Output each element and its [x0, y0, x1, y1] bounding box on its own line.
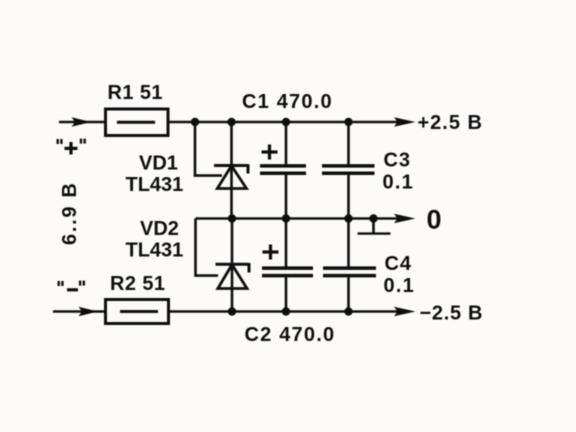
polarity + mark C1: [262, 145, 278, 160]
svg-text:VD2: VD2: [140, 218, 179, 240]
input terminal "−" arrow: [53, 307, 105, 317]
capacitor C3: [322, 122, 375, 219]
shunt regulator VD2 TL431: [216, 219, 250, 312]
svg-text:C3: C3: [384, 149, 411, 171]
node top rail / VD1 cathode junction: [227, 118, 235, 126]
wire middle rail 0: [196, 217, 399, 220]
node bottom rail / C4 junction: [344, 307, 352, 315]
svg-text:0.1: 0.1: [383, 172, 414, 194]
ground symbol: [358, 219, 391, 234]
svg-text:+2.5 В: +2.5 В: [418, 112, 483, 134]
wire top rail +2.5: [168, 121, 398, 124]
resistor R2: [106, 300, 169, 324]
capacitor C1: [260, 122, 306, 219]
node middle rail / VD junction: [228, 214, 236, 222]
arrow −2.5 output: [394, 307, 416, 317]
node middle rail / C1-C2 junction: [282, 214, 290, 222]
capacitor C2: [262, 219, 313, 312]
wire bottom rail −2.5: [169, 310, 399, 313]
svg-text:−2.5 В: −2.5 В: [420, 302, 484, 324]
arrow 0 output: [394, 214, 416, 224]
svg-text:C4: C4: [385, 253, 412, 275]
shunt regulator VD1 TL431: [214, 122, 248, 219]
capacitor C4: [323, 219, 376, 312]
wire VD1 reference: [195, 122, 222, 176]
node bottom rail / VD2 anode: [228, 307, 236, 315]
label "−" input: [58, 281, 86, 292]
resistor R1: [106, 109, 169, 136]
node middle rail / C3-C4 junction: [344, 214, 352, 222]
svg-text:R1 51: R1 51: [108, 82, 163, 104]
label "+" input: [57, 139, 86, 155]
wire VD2 reference: [196, 219, 219, 276]
arrow +2.5 output: [394, 117, 416, 127]
node bottom rail / C2 junction: [282, 307, 290, 315]
svg-text:R2 51: R2 51: [110, 273, 165, 295]
input terminal "+" arrow: [59, 117, 105, 127]
node top rail / VD1 ref junction: [191, 118, 199, 126]
node top rail / C3 junction: [344, 118, 352, 126]
svg-text:TL431: TL431: [126, 239, 184, 261]
svg-text:C2 470.0: C2 470.0: [245, 324, 336, 346]
polarity + mark C2: [263, 245, 279, 260]
node middle rail / ground tap: [369, 214, 377, 222]
node top rail / C1 junction: [282, 118, 290, 126]
svg-text:0: 0: [427, 204, 442, 234]
svg-text:0.1: 0.1: [384, 275, 415, 297]
svg-text:TL431: TL431: [126, 174, 184, 196]
svg-text:C1 470.0: C1 470.0: [242, 91, 333, 113]
svg-text:6..9 В: 6..9 В: [59, 181, 81, 245]
svg-text:VD1: VD1: [139, 152, 178, 174]
